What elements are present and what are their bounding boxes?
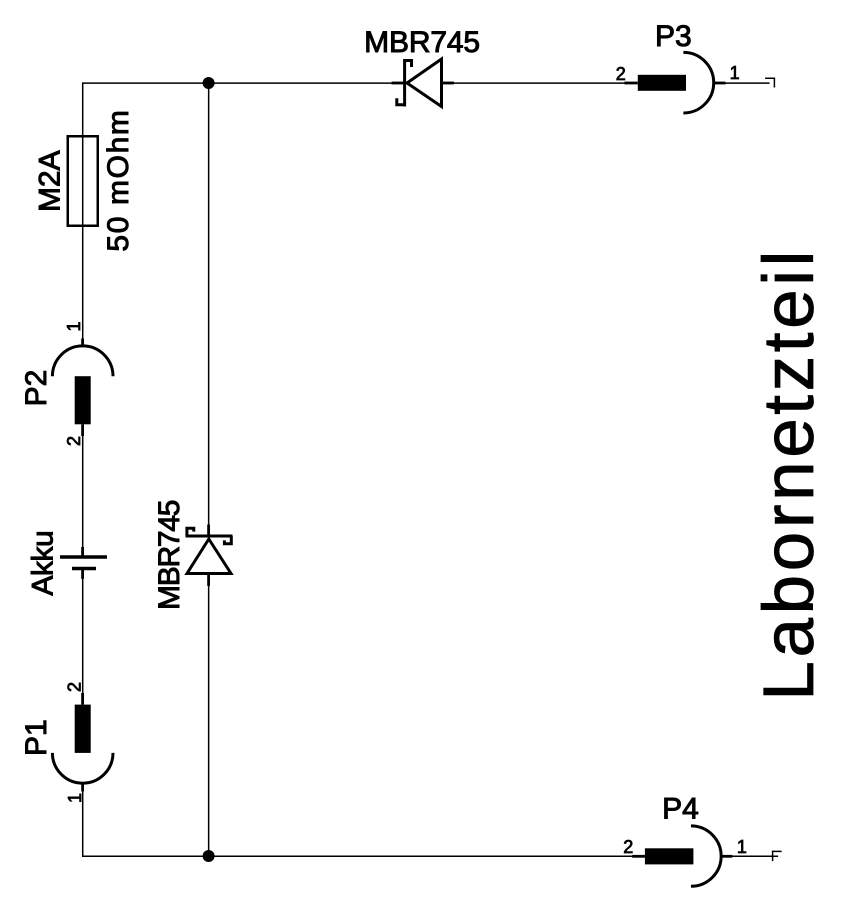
wire vertical middle: junction to diode D2 [208,83,210,525]
P3 pin rectangle [638,75,686,91]
diode D2 MBR745 (vertical, pointing up) [153,500,233,611]
wire top horizontal left (corner to diode D1) [82,82,403,84]
diode D1 MBR745 (horizontal, pointing left) [364,26,480,107]
P2 arc [52,346,113,376]
svg-text:P1: P1 [20,719,53,756]
svg-text:2: 2 [616,64,626,84]
P2 pin 2 stub [81,424,84,436]
P1 pin 2 stub [81,693,84,705]
diode D2 anode pin stub [207,575,210,586]
wire left vertical: corner to fuse [82,82,84,135]
diode D1 triangle [407,59,442,107]
svg-text:Labornetzteil: Labornetzteil [750,251,829,701]
diode D2 cathode bar [186,535,233,538]
P2 pin 1 stub [81,339,84,347]
diode D2 schottky right hook [224,536,231,544]
battery long plate [60,555,107,559]
wire through fuse F1 [82,135,84,227]
net stub mark at P4 pin 1 [773,851,782,862]
connector P2 [20,321,113,446]
P3 pin 1 stub [713,82,726,85]
svg-text:1: 1 [737,837,747,857]
svg-text:2: 2 [65,682,85,692]
P4 arc [691,826,721,886]
P3 arc [683,52,713,113]
diode D1 anode pin stub [392,82,404,85]
battery bottom pin stub [81,570,84,579]
P4 pin 1 stub [721,855,732,858]
diode D1 cathode bar [403,59,406,107]
diode D2 schottky left hook [187,528,194,536]
battery short plate [72,567,96,571]
wire P4 pin 1 to net stub [721,855,778,857]
wire fuse to P2 pin 1 [82,227,84,340]
net stub mark at P3 pin 1 [765,78,774,87]
svg-text:Akku: Akku [27,530,60,595]
svg-text:2: 2 [64,436,84,446]
connector P1 [20,682,113,803]
diode D2 cathode pin stub [207,525,210,536]
svg-text:2: 2 [623,837,633,857]
P1 pin 1 stub [81,783,84,792]
P2 pin rectangle [75,376,91,424]
wire diode D2 to bottom junction [208,586,210,857]
wire top horizontal right (diode D1 to P3 pin 2) [443,82,637,84]
wire P2 pin 2 to battery [82,435,84,548]
svg-text:1: 1 [64,321,84,331]
diode D1 schottky bottom hook [397,98,405,105]
diode D2 triangle [187,539,231,574]
wire P3 pin 1 to net stub [715,82,770,84]
svg-text:50 mOhm: 50 mOhm [102,110,135,252]
svg-text:MBR745: MBR745 [153,500,186,611]
svg-text:P3: P3 [655,20,692,53]
battery top pin stub [81,547,84,556]
P3 pin 2 stub [625,82,638,85]
svg-text:P4: P4 [662,793,699,826]
wire battery to P1 pin 2 [82,579,84,695]
svg-text:1: 1 [730,63,740,83]
svg-text:MBR745: MBR745 [364,26,480,59]
P4 pin 2 stub [632,855,645,858]
junction dot bottom node [203,850,215,862]
fuse F1 body [68,136,98,226]
svg-text:P2: P2 [20,370,53,407]
P4 pin rectangle [645,848,694,864]
junction dot top node [203,77,215,89]
wire bottom horizontal (corner to P4 pin 2) [82,855,633,857]
wire P1 pin 1 to bottom corner [82,791,84,857]
P1 pin rectangle [75,705,91,753]
svg-text:1: 1 [65,793,85,803]
battery Akku [27,530,107,595]
diode D1 schottky top hook [405,61,412,68]
connector P4 [623,793,747,887]
P1 arc [52,753,113,783]
connector P3 [616,20,740,113]
svg-text:M2A: M2A [33,151,66,213]
diode D1 cathode pin stub [442,82,454,85]
